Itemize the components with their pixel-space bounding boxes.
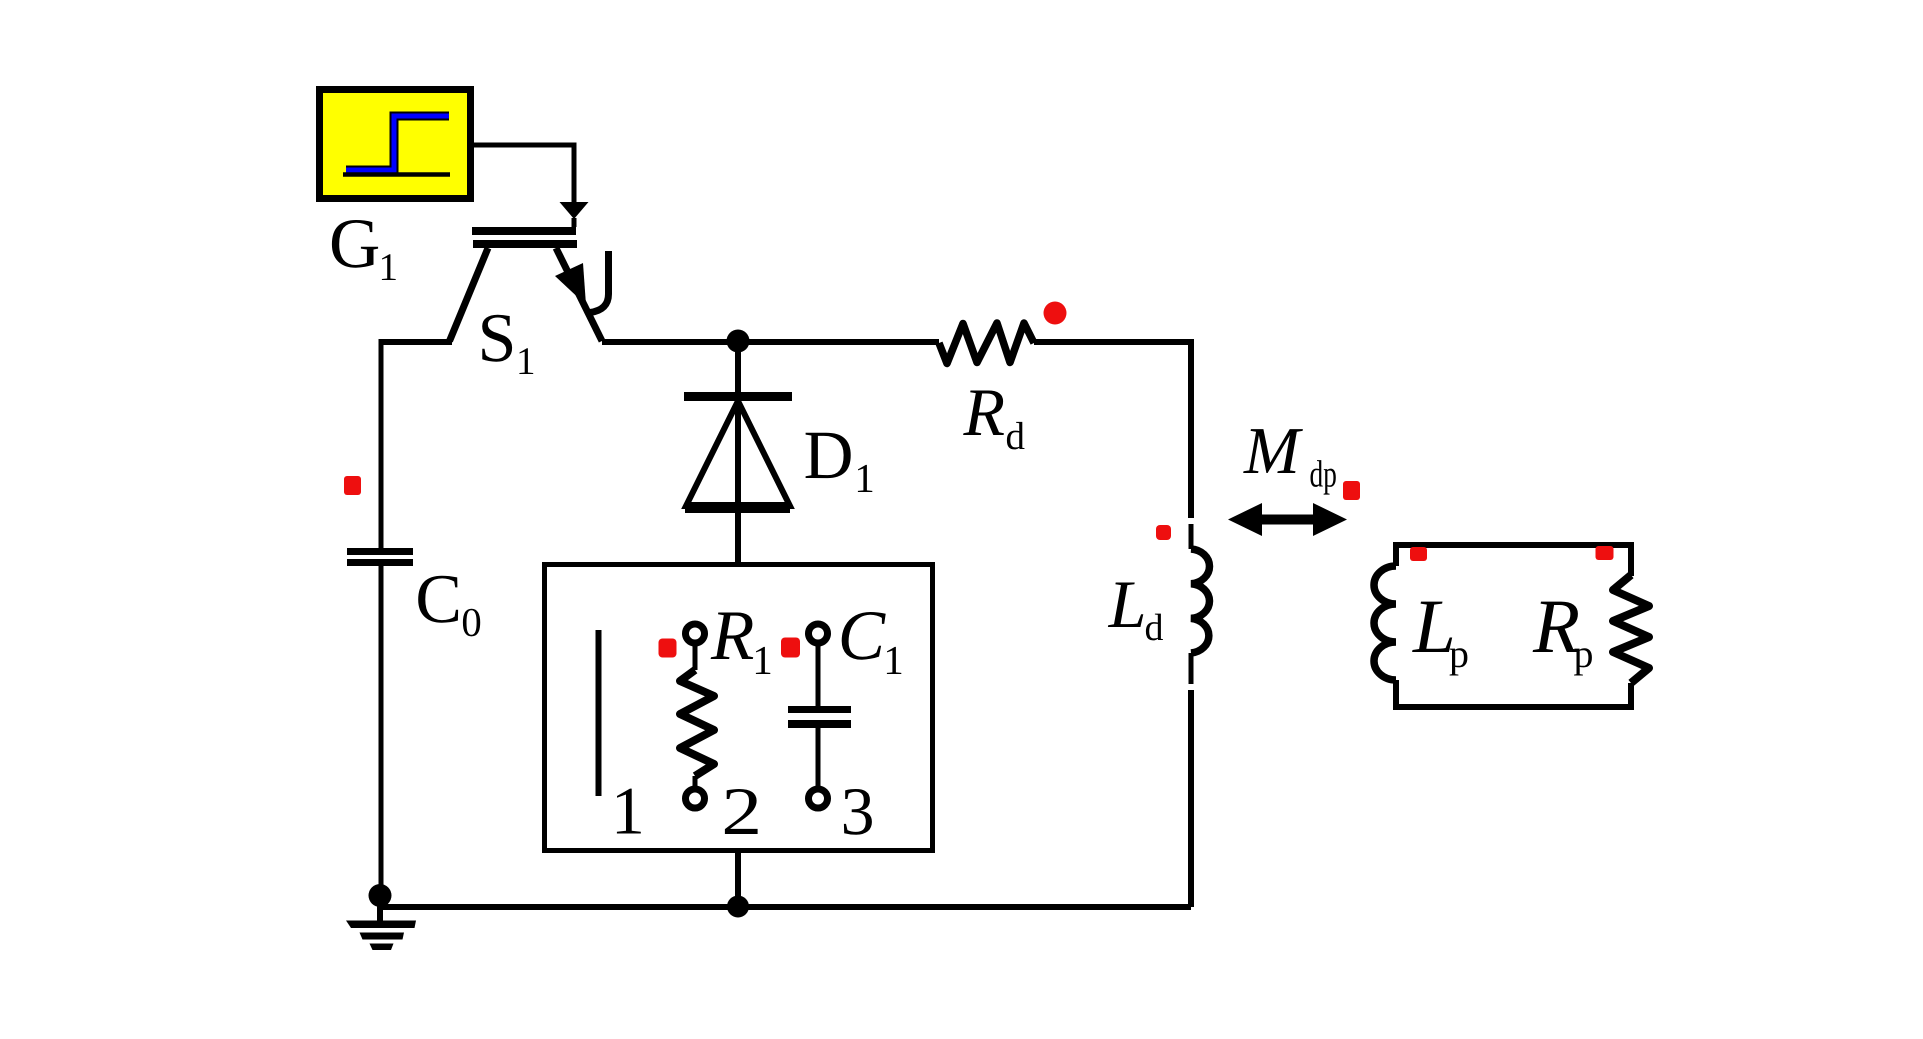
terminal bar 1 <box>596 630 602 796</box>
wire top rail middle segment <box>602 339 939 345</box>
label 2 <box>725 789 758 834</box>
resistor R1 terminal top <box>686 624 705 643</box>
ground symbol <box>346 921 416 951</box>
red probe dot R1 <box>659 639 677 658</box>
mutual coupling arrow Mdp <box>1228 503 1347 536</box>
wire left branch upper <box>379 342 384 548</box>
red probe dot Ld <box>1156 525 1171 540</box>
label C1 <box>842 612 886 660</box>
resistor Rd <box>939 323 1034 364</box>
label Rp <box>1533 602 1579 652</box>
red probe dot Rd <box>1044 302 1067 325</box>
ground stub <box>377 905 383 921</box>
secondary loop bottom wire <box>1396 704 1631 710</box>
red probe dot Lp <box>1410 547 1427 561</box>
resistor Rp <box>1613 575 1649 683</box>
secondary loop right stubs <box>1628 542 1634 576</box>
gate arrow <box>560 202 589 219</box>
label G1 <box>332 220 378 268</box>
bottom rail wire <box>380 904 1191 910</box>
label C0 <box>418 576 458 623</box>
resistor R1 <box>680 642 714 790</box>
label Lp <box>1412 602 1452 652</box>
secondary loop left stubs <box>1393 542 1399 566</box>
node junction bottom <box>727 896 749 918</box>
red probe dot Mdp <box>1343 481 1360 500</box>
capacitor C1 terminal top <box>809 624 828 643</box>
capacitor C1 terminal bottom <box>809 789 828 808</box>
wire right rail below Ld <box>1189 653 1194 684</box>
diode D1 wire <box>735 342 741 563</box>
label Ld <box>1108 583 1143 628</box>
inductor Lp <box>1374 566 1396 680</box>
capacitor C1 <box>788 642 851 790</box>
diode D1 <box>684 392 792 513</box>
wire Rd to right rail corner <box>1034 342 1191 518</box>
capacitor C0 <box>347 548 413 566</box>
wire G1 to S1 gate <box>474 145 574 204</box>
label 1 <box>617 789 641 834</box>
wire box bottom to rail <box>735 852 741 907</box>
wire top rail left segment <box>379 339 453 345</box>
wire right rail stub above Ld <box>1189 524 1194 549</box>
label S1 <box>482 315 512 362</box>
wire left branch lower <box>379 566 384 896</box>
pulse generator G1 <box>320 90 471 199</box>
transistor S1 <box>450 227 609 341</box>
red probe dot Rp <box>1596 546 1614 560</box>
secondary loop top wire <box>1396 542 1631 548</box>
label Mdp <box>1243 429 1303 473</box>
node junction top <box>727 330 750 353</box>
red probe dot C1 <box>781 638 800 658</box>
label R1 <box>711 613 754 660</box>
inductor Ld <box>1191 549 1209 653</box>
red probe dot C0 <box>344 476 361 495</box>
snubber network box <box>545 565 933 851</box>
label 3 <box>844 789 872 835</box>
node junction ground <box>369 884 392 907</box>
label D1 <box>806 433 851 478</box>
label Rd <box>963 391 1004 436</box>
resistor R1 terminal bottom <box>686 789 705 808</box>
